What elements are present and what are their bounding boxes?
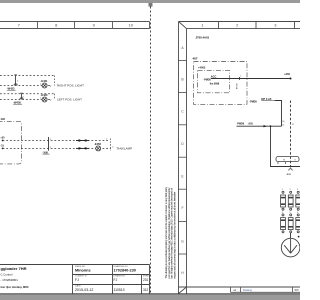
- connector W430 vertical: [20, 93, 23, 99]
- svg-text:-A55: -A55: [248, 122, 254, 125]
- tank lamp E456: [94, 142, 101, 151]
- svg-text:4: 4: [282, 212, 283, 214]
- svg-text:10: 10: [128, 23, 133, 28]
- pin tick on wire: [239, 77, 241, 80]
- terminal block row 1 unit 2: [288, 191, 293, 210]
- svg-text:J700 #A01: J700 #A01: [196, 36, 210, 40]
- svg-text:1: 1: [282, 189, 283, 191]
- right page frame: [179, 22, 301, 294]
- dashed bus line: [290, 101, 292, 168]
- wire: lamp line D (dashed): [0, 99, 52, 101]
- wire: dashed drop from A to lamp line: [54, 76, 56, 86]
- svg-text:6: 6: [297, 212, 298, 214]
- svg-text:407: 407: [193, 56, 198, 60]
- right page sheet: [150, 3, 300, 294]
- wire to motor: [290, 233, 292, 238]
- svg-text:9m 0868: 9m 0868: [210, 82, 220, 85]
- svg-text:-X95: -X95: [43, 150, 49, 154]
- svg-text:DRAWN BY: DRAWN BY: [114, 275, 126, 278]
- connector W433 vertical: [14, 75, 17, 86]
- svg-text:30: 30: [282, 121, 284, 123]
- right page row letters: [181, 46, 184, 275]
- right page row dividers: [179, 61, 187, 255]
- inline arrow junction: [264, 125, 268, 127]
- wire tank lamp return (dashed): [3, 147, 111, 149]
- L shaped wire down and right: [271, 126, 301, 166]
- svg-text:-PMD8: -PMD8: [203, 79, 211, 82]
- svg-text:-E430: -E430: [41, 93, 48, 97]
- inline connector arrow on return wire: [76, 147, 89, 149]
- node -31: [2, 148, 4, 150]
- wire ACC to +303: [211, 78, 291, 80]
- svg-text:+30: +30: [0, 136, 5, 139]
- svg-text:WH: WH: [295, 289, 299, 292]
- svg-text:TANKLAMP: TANKLAMP: [116, 147, 132, 151]
- page bottom edge: [0, 293, 300, 295]
- connector X95: [43, 137, 52, 154]
- svg-text:231: 231: [143, 278, 149, 282]
- terminal block row 2 unit 3: [296, 214, 301, 233]
- footer row cells: [231, 287, 301, 292]
- left page column numbers: [18, 23, 134, 28]
- svg-text:request and all contents kept: request and all contents kept in strict …: [172, 192, 176, 279]
- svg-text:2: 2: [290, 189, 291, 191]
- svg-text:31: 31: [292, 124, 294, 126]
- svg-text:15: 15: [282, 124, 284, 126]
- svg-text:G: G: [181, 239, 184, 243]
- junction node +303: [290, 78, 292, 80]
- svg-text:VESA: VESA: [235, 83, 238, 89]
- svg-text:-X31: -X31: [286, 174, 291, 176]
- inline connector arrow on feed wire: [76, 140, 89, 142]
- svg-text:FJ: FJ: [75, 278, 79, 282]
- svg-text:-W430: -W430: [13, 101, 21, 105]
- connector bar: [276, 157, 299, 162]
- svg-text:-PMD8: -PMD8: [249, 101, 257, 104]
- svg-text:312: 312: [143, 288, 149, 292]
- svg-text:tion Ujut, Hordarp, MDC: tion Ujut, Hordarp, MDC: [1, 285, 29, 289]
- terminal block row 1 unit 1: [281, 191, 286, 210]
- svg-text:-PMD6: -PMD6: [237, 122, 245, 125]
- svg-text:C Control: C Control: [1, 273, 13, 277]
- rotated copyright note: [164, 186, 176, 278]
- svg-text:403: 403: [1, 117, 6, 121]
- wire tank lamp feed (dashed): [3, 140, 108, 142]
- wire: supply line C (dashed): [0, 93, 54, 95]
- junction dot near motor: [298, 236, 300, 238]
- svg-text:- 1702840801: - 1702840801: [1, 278, 19, 282]
- svg-text:Minonns: Minonns: [75, 269, 91, 273]
- svg-text:2015-03-12: 2015-03-12: [75, 288, 93, 292]
- node +30: [2, 140, 4, 142]
- motor M1: [281, 238, 300, 257]
- page separator notch: [149, 3, 153, 7]
- wire: supply line A (dashed): [0, 75, 54, 77]
- svg-text:1702840-230: 1702840-230: [114, 269, 136, 273]
- left page header band: [0, 22, 150, 29]
- svg-text:LEFT POS. LIGHT: LEFT POS. LIGHT: [57, 98, 82, 102]
- svg-text:F: F: [181, 206, 183, 210]
- svg-text:COASTE XI: COASTE XI: [75, 275, 87, 278]
- system boundary box 403 (dash-dot): [0, 121, 22, 163]
- lamp E430: [40, 93, 52, 102]
- svg-text:-W433: -W433: [7, 87, 15, 91]
- wire: lamp line B (dashed): [0, 85, 52, 87]
- left page sheet: [0, 3, 151, 294]
- junction node at L wire: [270, 125, 272, 127]
- terminal block row 2 unit 2: [288, 214, 293, 233]
- system boundary box 407 (dash-dot): [194, 62, 248, 105]
- wire PMD6 to A55: [237, 125, 282, 127]
- wire: dashed drop from C to lamp line: [54, 94, 56, 100]
- wire DP down: [275, 101, 282, 127]
- module box PMD8 (dash-dot): [198, 71, 230, 93]
- connector arc X31: [289, 169, 293, 171]
- svg-text:ACC: ACC: [211, 75, 217, 79]
- svg-text:-E456: -E456: [94, 142, 101, 146]
- page separator dashed line: [150, 7, 152, 295]
- lamp E431: [40, 79, 52, 88]
- svg-text:-E431: -E431: [41, 79, 48, 83]
- right page column numbers: [201, 23, 277, 28]
- svg-text:8: 8: [295, 159, 296, 161]
- svg-text:ggloader 7HR: ggloader 7HR: [1, 266, 27, 271]
- dashed link between wire ends: [110, 139, 112, 151]
- svg-text:1: 1: [240, 76, 241, 78]
- terminal block row 1 unit 3: [296, 191, 301, 210]
- svg-text:DP 3 A5: DP 3 A5: [261, 97, 272, 101]
- svg-text:RIGHT POS. LIGHT: RIGHT POS. LIGHT: [57, 84, 84, 88]
- svg-text:110513: 110513: [114, 288, 125, 292]
- title block frame: [0, 265, 150, 294]
- svg-text:92: 92: [283, 159, 285, 161]
- svg-text:+4002: +4002: [198, 66, 206, 70]
- svg-text:5: 5: [290, 212, 291, 214]
- svg-text:3: 3: [297, 189, 298, 191]
- svg-text:Drawing: Drawing: [243, 289, 252, 292]
- terminal block row 2 unit 1: [281, 214, 286, 233]
- svg-text:+303: +303: [284, 72, 290, 76]
- svg-text:FJ: FJ: [114, 278, 118, 282]
